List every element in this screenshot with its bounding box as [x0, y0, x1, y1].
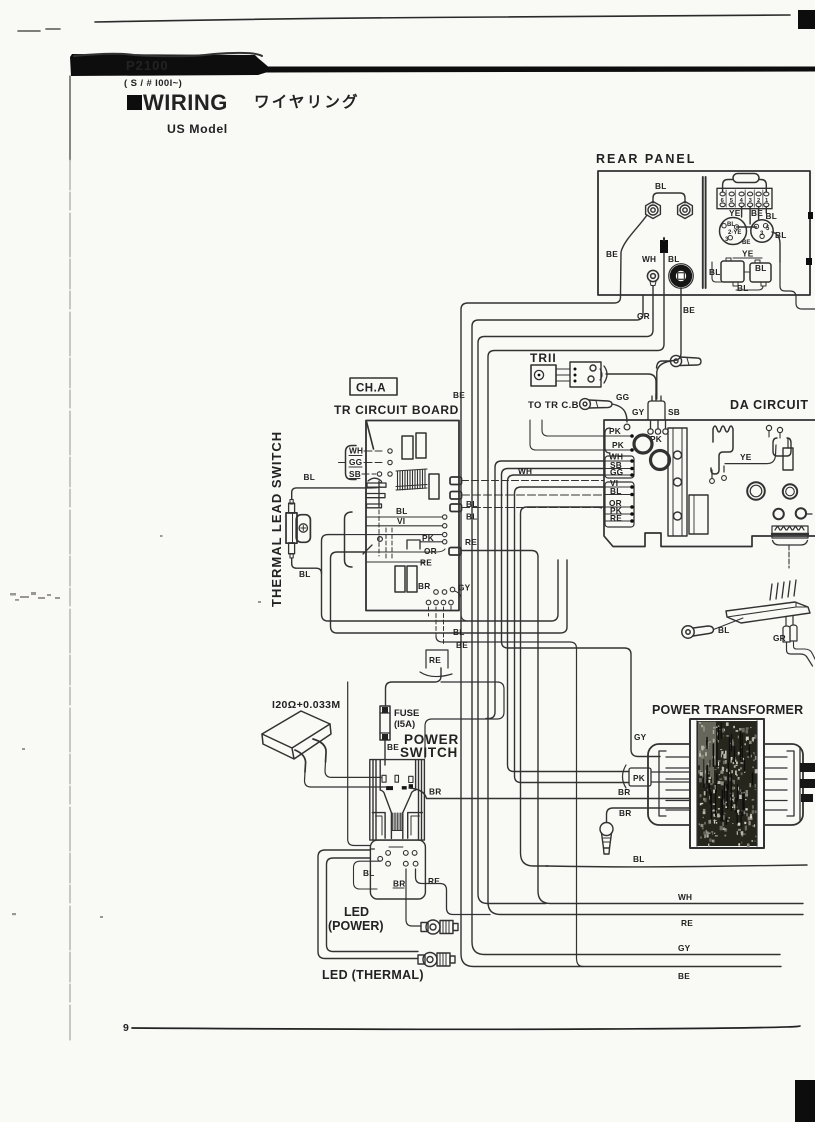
left page spine line: [69, 76, 71, 160]
capacitor block: [660, 240, 668, 253]
wire BE bus to bottom: [436, 636, 577, 700]
DA row PK1: [604, 435, 630, 437]
svg-text:BL: BL: [737, 283, 748, 293]
switch contacts: [382, 775, 413, 782]
wire BL between jacks: [653, 193, 685, 203]
bottom-right black block: [795, 1080, 815, 1122]
wire BR switch to transformer: [409, 788, 690, 799]
svg-text:BR: BR: [429, 787, 441, 797]
svg-text:RE: RE: [428, 876, 440, 886]
GG pad circle: [624, 424, 630, 430]
transformer body: [648, 744, 803, 825]
svg-text:RE: RE: [610, 513, 622, 523]
svg-text:BL: BL: [668, 254, 679, 264]
wire PK box to transformer: [651, 772, 690, 782]
tab right 3: [450, 504, 462, 512]
right edge connector tabs: [800, 747, 815, 820]
connector handle top right: [733, 174, 759, 183]
thermal switch body left bar: [286, 513, 297, 543]
svg-text:FUSE: FUSE: [394, 708, 419, 719]
svg-text:BL: BL: [299, 569, 310, 579]
svg-text:BE: BE: [453, 390, 465, 400]
jack J4 big: [669, 264, 694, 289]
wire RE block to RE run: [416, 869, 491, 915]
thermal switch body right pad: [296, 515, 310, 543]
RE junction box: [426, 650, 448, 668]
svg-text:2·YE: 2·YE: [728, 230, 741, 236]
wire block left loop outer: [318, 850, 418, 959]
DA connector group 3 box: [605, 482, 634, 527]
pin pads top row: [720, 192, 769, 196]
top right pins: [766, 425, 771, 430]
svg-text:TR CIRCUIT BOARD: TR CIRCUIT BOARD: [334, 403, 459, 417]
120ohm component 3d box: [262, 711, 331, 759]
thick ring 1: [747, 482, 765, 500]
pin pads bottom row: [720, 203, 769, 207]
svg-text:PK: PK: [612, 440, 624, 450]
svg-text:PK: PK: [633, 773, 645, 783]
svg-text:I20Ω+0.033M: I20Ω+0.033M: [272, 699, 341, 711]
ic rect 3: [429, 474, 439, 499]
svg-text:GY: GY: [634, 732, 647, 742]
thermal switch bottom stem: [289, 543, 295, 554]
wire BL tab3 crossover: [462, 508, 605, 515]
wire BE from J1: [621, 215, 648, 295]
wire lead1 to switch: [325, 762, 381, 777]
switch coil hatch: [393, 813, 402, 831]
bracket coil legs: [712, 466, 724, 478]
transformer left pins: [659, 751, 690, 816]
GY SB connector: [648, 394, 666, 429]
jack J3: [647, 270, 658, 285]
wire GY pad to bus: [455, 591, 469, 621]
relay comp left: [721, 261, 744, 282]
wire pin1 down right: [759, 207, 767, 219]
svg-text:REAR PANEL: REAR PANEL: [596, 152, 696, 166]
toroid ring 2: [651, 451, 670, 470]
wire WH from J3 down: [652, 286, 654, 295]
LED THERMAL bolt: [418, 953, 455, 967]
top-right black corner block: [798, 10, 815, 29]
DA row WH: [604, 460, 630, 462]
jack J2 hex nut: [678, 202, 693, 219]
120ohm leads: [295, 739, 326, 772]
DA row SB: [604, 468, 630, 470]
bottom connector pads: [426, 587, 455, 605]
svg-text:BE: BE: [606, 249, 618, 259]
svg-text:BE: BE: [678, 971, 690, 981]
svg-text:TRII: TRII: [530, 351, 557, 365]
wire DA PK2 stub: [530, 420, 604, 450]
svg-text:BL: BL: [610, 486, 621, 496]
svg-text:BR: BR: [393, 879, 405, 889]
row short: [420, 541, 442, 543]
wire loop VI row to lower bus: [331, 552, 568, 633]
svg-text:WH: WH: [349, 446, 363, 456]
power switch body: [370, 760, 425, 841]
svg-text:BE: BE: [751, 208, 763, 218]
bolt terminal: [600, 823, 613, 855]
svg-text:GG: GG: [349, 457, 362, 467]
rear panel divider: [703, 177, 706, 288]
wire lower comps link: [712, 262, 763, 290]
DA row VI: [604, 486, 630, 488]
svg-text:BR: BR: [418, 581, 430, 591]
switch contact circle: [378, 537, 383, 542]
lower comp wire YE: [733, 257, 762, 259]
svg-text:ワイヤリング: ワイヤリング: [254, 92, 360, 111]
mid rows left bracket: [345, 512, 353, 567]
wire connector to lower right: [772, 232, 780, 262]
DA row OR: [604, 506, 630, 508]
thermal switch top stem: [289, 503, 295, 513]
svg-text:P2100: P2100: [126, 58, 169, 73]
ic rect 2: [416, 433, 426, 458]
mark right edge 1: [808, 212, 813, 219]
PK junction box: [629, 768, 651, 786]
dashed verticals on board: [379, 510, 392, 558]
svg-text:YE: YE: [729, 208, 741, 218]
svg-text:BR: BR: [618, 787, 630, 797]
wire RE box to fuse: [386, 668, 442, 706]
wire exits panel bottom right: [780, 262, 815, 309]
svg-text:BE: BE: [742, 240, 750, 246]
wire YE link: [725, 445, 776, 464]
wire BR transformer to bolt: [607, 808, 691, 822]
core texture: [698, 722, 758, 847]
DA row PK3: [604, 513, 630, 515]
coil L1: [396, 469, 427, 490]
wire WH jack down to WH run: [478, 295, 653, 904]
svg-text:GY: GY: [632, 407, 645, 417]
wire loop to handle left: [723, 180, 733, 193]
ic rect 1: [402, 436, 413, 459]
ic rect 5: [407, 566, 417, 592]
GR tubes: [783, 616, 797, 642]
bracket top right: [773, 438, 791, 456]
small ring 2: [796, 508, 806, 518]
bracket coil component: [711, 426, 733, 474]
pin connector strip: [717, 188, 772, 208]
wire BE jack to tab1: [461, 295, 781, 967]
DA connector group 1 bracket: [605, 428, 610, 453]
svg-text:DA CIRCUIT: DA CIRCUIT: [730, 398, 809, 412]
wire from zigzag connector down: [773, 541, 808, 546]
diagonal pcb board: [726, 602, 810, 623]
svg-text:BR: BR: [619, 808, 631, 818]
svg-text:( S / # I00I~): ( S / # I00I~): [124, 78, 182, 89]
wire block left loop inner: [327, 858, 419, 952]
transistor bracket on board: [366, 478, 386, 508]
svg-text:WH: WH: [678, 892, 692, 902]
svg-text:WIRING: WIRING: [143, 90, 228, 115]
heatsink tall: [668, 428, 687, 536]
svg-text:CH.A: CH.A: [356, 383, 386, 395]
wire eyelet to TRII wire: [657, 361, 672, 368]
DA row RE: [604, 520, 630, 522]
wire GG to DA board: [612, 404, 627, 422]
svg-text:THERMAL LEAD SWITCH: THERMAL LEAD SWITCH: [269, 431, 284, 607]
fuse F1: [380, 706, 390, 740]
wire BR block to LED: [406, 869, 421, 926]
svg-text:BL: BL: [396, 506, 407, 516]
dashed drops from TR connector: [429, 606, 452, 645]
thick ring 2: [783, 484, 797, 498]
tab right 1: [450, 477, 462, 485]
DA row PK2: [604, 449, 630, 451]
eyelet terminal top: [670, 355, 701, 366]
wire loop BL row to lower bus: [322, 535, 559, 621]
wire RE tab to bus: [461, 551, 803, 904]
svg-text:BL: BL: [755, 263, 766, 273]
tab right 2: [450, 492, 462, 500]
wire DA PK1 stub: [542, 420, 604, 436]
wire lead2 to switch: [305, 772, 387, 787]
TRII leads: [556, 369, 570, 381]
wire DA GG row to transformer GY: [508, 475, 630, 772]
svg-text:LED (THERMAL): LED (THERMAL): [322, 968, 424, 982]
footer rule: [132, 1026, 800, 1029]
PK bracket: [623, 765, 627, 788]
svg-text:(POWER): (POWER): [328, 919, 384, 933]
wire DA OR row to PK lower: [521, 507, 605, 866]
svg-text:BL: BL: [304, 472, 315, 482]
wire from J4 down: [680, 288, 682, 295]
svg-text:9: 9: [123, 1022, 129, 1034]
GY SB pads: [648, 429, 653, 434]
DA board outline: [604, 420, 815, 547]
bottom connector zigzag: [772, 526, 808, 538]
svg-text:LED: LED: [344, 905, 369, 919]
ic rect 4: [395, 566, 405, 592]
labels inside round connectors: [725, 222, 770, 246]
wire eyelet to board: [714, 618, 744, 630]
wire thermal bottom join loop: [292, 558, 322, 574]
svg-text:BL: BL: [766, 211, 777, 221]
transformer core: [690, 719, 764, 848]
svg-text:SB: SB: [668, 407, 680, 417]
svg-text:BL: BL: [709, 267, 720, 277]
wire GR to BL bus: [472, 295, 780, 955]
TRII pcb piece: [570, 362, 601, 387]
top thin rule: [95, 15, 790, 22]
svg-text:VI: VI: [397, 516, 405, 526]
eyelet terminal GG: [580, 399, 612, 410]
wire DA WH row to GY run: [486, 461, 604, 719]
svg-text:BE: BE: [387, 742, 399, 752]
round connector right: [751, 220, 773, 242]
svg-text:RE: RE: [429, 655, 441, 665]
wire BL run: [546, 865, 807, 867]
svg-text:SWITCH: SWITCH: [400, 745, 458, 760]
svg-text:SB: SB: [349, 469, 361, 479]
svg-text:RE: RE: [681, 918, 693, 928]
rear panel box: [598, 171, 810, 295]
WIRING heading square: [127, 95, 142, 110]
small rect on board: [407, 540, 420, 549]
DA row GG: [604, 474, 630, 476]
svg-text:RE: RE: [465, 537, 477, 547]
capacitor rect: [689, 495, 708, 534]
svg-text:GG: GG: [616, 392, 629, 402]
eyelet BL bottom: [682, 626, 714, 638]
svg-text:(I5A): (I5A): [394, 719, 415, 730]
round connector left: [720, 218, 747, 245]
wire BL from capacitor down: [663, 253, 665, 295]
pin numbers 6..1: [721, 198, 769, 204]
svg-text:BL: BL: [655, 181, 666, 191]
wire thermal top to board: [292, 487, 380, 500]
DA row BL: [604, 494, 630, 496]
diagonal pins group: [770, 580, 796, 600]
relay comp right: [750, 263, 771, 282]
connector pins small circles: [722, 224, 768, 240]
switch lower connector block: [370, 840, 425, 899]
wire DA SB row to BE run: [502, 469, 661, 757]
svg-text:BL: BL: [727, 222, 735, 228]
wire BL tab2 crossover: [462, 494, 605, 496]
CH.A box label: [350, 378, 397, 395]
wire fuse to switch: [384, 740, 386, 765]
svg-text:GY: GY: [458, 583, 471, 593]
wire GR tubes down: [787, 642, 813, 666]
svg-text:BL: BL: [363, 868, 374, 878]
svg-text:GG: GG: [610, 467, 623, 477]
small rect comp: [783, 448, 793, 470]
wire BE big jack to GY SB: [657, 295, 681, 399]
wire BL cap down to RE run: [488, 295, 803, 915]
wire bus right from fuse wire: [425, 682, 504, 758]
transistor TRII body: [531, 365, 556, 386]
wire WH dashed crossover: [462, 480, 605, 482]
svg-text:WH: WH: [642, 254, 656, 264]
connector box WH GG SB: [346, 446, 357, 480]
tab right RE: [449, 548, 461, 556]
RE box bracket: [420, 672, 452, 677]
thermal switch screw: [299, 524, 307, 532]
small ring 1: [773, 509, 783, 519]
svg-text:POWER TRANSFORMER: POWER TRANSFORMER: [652, 703, 803, 717]
svg-text:YE: YE: [740, 452, 752, 462]
wire pin4 to round connector: [737, 207, 757, 227]
svg-text:BL: BL: [718, 625, 729, 635]
wire TRII to GY connector: [606, 374, 656, 399]
block pads: [378, 851, 418, 867]
TRII bracket: [604, 366, 607, 383]
svg-text:PK: PK: [609, 426, 621, 436]
top edge dashes: [18, 29, 60, 31]
svg-text:WH: WH: [518, 466, 532, 476]
svg-text:US Model: US Model: [167, 122, 228, 136]
jack J1 hex nut: [646, 202, 661, 219]
toroid ring 1: [634, 435, 652, 453]
wire BE lower vertical: [576, 700, 578, 958]
black header tab P2100: [70, 54, 815, 76]
margin speckles: [10, 535, 261, 918]
wire DA VI row to PK upper: [515, 487, 630, 783]
svg-text:BE: BE: [683, 305, 695, 315]
svg-text:BL: BL: [633, 854, 644, 864]
wire BE bottom hook: [577, 958, 584, 967]
LED POWER bolt: [421, 920, 458, 934]
svg-text:GY: GY: [678, 943, 691, 953]
mark right edge 2: [806, 258, 812, 265]
TR board outline: [366, 421, 459, 611]
wire bus down to block: [348, 682, 370, 846]
transformer right pins: [764, 751, 794, 816]
wire loop to handle right: [759, 180, 766, 193]
svg-text:TO TR C.B: TO TR C.B: [528, 400, 579, 411]
DA connector group 2 box: [605, 456, 634, 478]
svg-text:YE: YE: [742, 249, 754, 259]
svg-text:BL: BL: [453, 627, 464, 637]
svg-text:OR: OR: [424, 546, 437, 556]
